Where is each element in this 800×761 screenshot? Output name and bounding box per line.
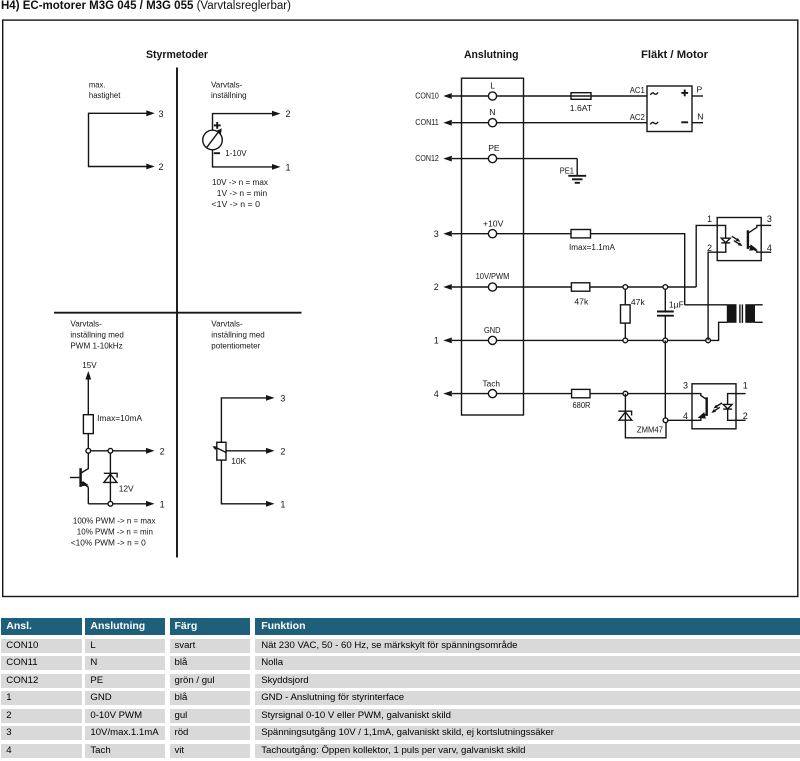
transformer core — [740, 304, 743, 323]
label CON10 — [415, 90, 439, 100]
svg-text:3: 3 — [159, 109, 164, 119]
wire opto2 pin4 — [665, 419, 692, 421]
arrow CON10 — [443, 93, 452, 99]
svg-text:2: 2 — [159, 162, 164, 172]
wire source top to node 2 — [213, 109, 291, 130]
wire transformer top — [685, 304, 727, 306]
svg-text:ZMM47: ZMM47 — [637, 425, 663, 435]
opto U1 LED — [717, 238, 730, 252]
table row CON11 — [1, 656, 81, 670]
svg-text:2: 2 — [280, 446, 285, 456]
node junction C — [108, 501, 113, 506]
terminal box — [462, 78, 524, 415]
terminal Tach — [483, 379, 501, 398]
terminal L — [488, 80, 496, 100]
opto U1 box — [717, 218, 761, 261]
quadrant divider horizontal — [54, 312, 302, 314]
svg-text:3: 3 — [767, 214, 772, 224]
opto U1 emission arrows — [732, 236, 743, 246]
terminal +10V — [483, 218, 504, 237]
arrow row 3 — [443, 231, 452, 237]
svg-text:inställning: inställning — [211, 90, 247, 100]
svg-text:inställning med: inställning med — [211, 330, 265, 340]
svg-text:47k: 47k — [574, 297, 589, 307]
svg-text:100% PWM -> n = max: 100% PWM -> n = max — [73, 516, 156, 526]
svg-text:max.: max. — [89, 79, 106, 89]
svg-text:1: 1 — [286, 162, 291, 172]
svg-text:47k: 47k — [631, 297, 646, 307]
svg-text:15V: 15V — [82, 360, 97, 370]
svg-text:10V -> n = max: 10V -> n = max — [212, 177, 269, 187]
resistor 680R — [572, 389, 591, 410]
arrow CON11 — [443, 120, 452, 126]
label AC1 — [630, 85, 645, 95]
label CON12 — [415, 153, 439, 163]
svg-text:AC1: AC1 — [630, 85, 645, 95]
zener diode ZMM47 — [618, 394, 666, 438]
svg-text:<1V -> n = 0: <1V -> n = 0 — [212, 199, 261, 209]
capacitor 1uF — [657, 290, 684, 341]
opto U1 pin 2 — [707, 243, 717, 341]
svg-text:N: N — [697, 112, 703, 122]
wire N stub — [692, 112, 703, 123]
wire L row — [452, 95, 647, 97]
svg-text:GND: GND — [484, 325, 501, 335]
svg-text:P: P — [697, 84, 703, 94]
wire 15V supply with up arrow — [85, 371, 91, 415]
svg-text:1: 1 — [434, 336, 439, 346]
junction opto2 pin4 — [663, 418, 668, 423]
zener diode 12V — [104, 453, 134, 504]
svg-text:Imax=10mA: Imax=10mA — [97, 413, 142, 423]
voltage source V1 1-10V — [203, 122, 247, 158]
svg-text:PE: PE — [488, 143, 500, 153]
svg-text:680R: 680R — [573, 400, 591, 410]
table row 2 0-10V PWM — [1, 709, 81, 723]
label PE1 — [560, 166, 574, 176]
opto U2 pin 1 — [736, 381, 748, 394]
wire resistor to node — [87, 434, 89, 451]
opto U1 pin 1 — [707, 214, 726, 238]
label 1 — [434, 336, 439, 346]
svg-text:+10V: +10V — [483, 218, 504, 228]
arrow row 1 — [443, 338, 452, 344]
svg-text:2: 2 — [707, 243, 712, 253]
wire 10V/PWM row — [452, 286, 696, 288]
arrow row 4 — [443, 391, 452, 397]
transistor Q1 — [70, 453, 89, 504]
wire node row 2 with arrow — [88, 446, 164, 456]
terminal N — [488, 107, 496, 127]
transformer winding right — [745, 304, 755, 323]
svg-text:10V/PWM: 10V/PWM — [476, 271, 510, 281]
wire PE row — [452, 159, 577, 175]
wire transformer right stubs — [755, 305, 763, 323]
ground PE1 — [568, 176, 586, 183]
wire pin1 riser — [696, 225, 717, 287]
svg-text:hastighet: hastighet — [89, 90, 121, 100]
fuse 1.6AT — [570, 93, 593, 114]
resistor Imax=1.1mA — [569, 230, 615, 252]
opto U2 box — [692, 384, 736, 429]
wire +10V row — [452, 234, 685, 305]
label 2 — [434, 282, 439, 292]
svg-text:1.6AT: 1.6AT — [570, 103, 593, 113]
svg-text:2: 2 — [286, 109, 291, 119]
label 4 — [434, 389, 439, 399]
opto U2 pin 2 — [736, 411, 748, 421]
terminal GND — [484, 325, 501, 344]
svg-text:3: 3 — [280, 393, 285, 403]
svg-text:CON10: CON10 — [415, 90, 439, 100]
svg-text:4: 4 — [767, 243, 772, 253]
wire source bottom to node 1 — [213, 150, 291, 173]
wire pot top to node 3 — [221, 393, 285, 442]
svg-text:PE1: PE1 — [560, 166, 574, 176]
rectifier bridge — [647, 86, 692, 132]
svg-text:1V -> n = min: 1V -> n = min — [217, 188, 268, 198]
wire pot wiper to node 2 — [226, 446, 285, 456]
svg-text:CON11: CON11 — [415, 117, 439, 127]
label Varvtals-installning — [211, 79, 247, 100]
heading Anslutning — [464, 49, 519, 61]
junction 1uF bottom — [663, 338, 668, 343]
svg-text:Fläkt / Motor: Fläkt / Motor — [641, 49, 709, 61]
svg-text:Anslutning: Anslutning — [464, 49, 519, 61]
table row 3 10V — [1, 726, 81, 740]
wire pot bottom to node 1 — [221, 460, 285, 509]
svg-text:10% PWM -> n = min: 10% PWM -> n = min — [77, 527, 153, 537]
terminal 10V/PWM — [476, 271, 510, 291]
svg-text:Tach: Tach — [483, 379, 501, 389]
svg-text:2: 2 — [160, 446, 165, 456]
svg-text:CON12: CON12 — [415, 153, 439, 163]
opto U2 LED — [723, 394, 736, 421]
svg-text:PWM 1-10kHz: PWM 1-10kHz — [70, 340, 122, 350]
wire GND row — [452, 339, 708, 341]
junction zener tach — [623, 391, 628, 396]
svg-text:Styrmetoder: Styrmetoder — [146, 49, 209, 61]
opto U2 phototransistor — [692, 394, 707, 421]
svg-text:10K: 10K — [231, 456, 246, 466]
svg-text:12V: 12V — [119, 483, 134, 493]
svg-text:Varvtals-: Varvtals- — [211, 319, 243, 329]
svg-text:4: 4 — [683, 411, 688, 421]
svg-text:potentiometer: potentiometer — [211, 340, 260, 350]
junction GND end — [706, 338, 711, 343]
wire Tach row — [452, 393, 692, 395]
svg-text:<10% PWM -> n = 0: <10% PWM -> n = 0 — [71, 538, 146, 548]
svg-text:1-10V: 1-10V — [225, 148, 247, 158]
svg-text:N: N — [489, 107, 495, 117]
label Varvtals-installning med potentiometer — [211, 319, 265, 351]
wire bottom row 1 with arrow — [88, 499, 164, 509]
arrow CON12 — [443, 156, 452, 162]
arrow to node 2 — [146, 162, 163, 172]
opto U2 pin 3 — [683, 381, 688, 391]
opto U2 pin 4 — [683, 411, 688, 421]
svg-text:4: 4 — [434, 389, 439, 399]
note voltage mapping — [212, 177, 269, 209]
resistor 47k shunt — [621, 290, 646, 341]
svg-text:1: 1 — [707, 214, 712, 224]
table row 1 GND — [1, 691, 81, 705]
label max. hastighet — [89, 79, 121, 100]
svg-text:1µF: 1µF — [669, 300, 684, 310]
node junction B — [108, 448, 113, 453]
label 15V — [82, 360, 97, 370]
quadrant divider vertical — [176, 68, 178, 558]
label 3 — [434, 229, 439, 239]
svg-text:1: 1 — [280, 499, 285, 509]
svg-text:AC2: AC2 — [630, 112, 645, 122]
junction 47k shunt bottom — [623, 338, 628, 343]
table row CON12 — [1, 674, 81, 688]
opto U1 pin 4 — [761, 243, 772, 253]
arrow row 2 — [443, 284, 452, 290]
svg-text:L: L — [490, 80, 495, 90]
svg-text:1: 1 — [160, 499, 165, 509]
resistor 47k series — [571, 283, 589, 307]
wire max-hastighet bracket — [89, 113, 148, 166]
potentiometer 10K — [212, 442, 246, 466]
label Varvtals-installning med PWM 1-10kHz — [70, 319, 124, 351]
wire P stub — [692, 84, 703, 96]
svg-text:3: 3 — [434, 229, 439, 239]
junction 47k shunt top — [623, 285, 628, 290]
label AC2 — [630, 112, 645, 122]
table row CON10 — [1, 639, 81, 653]
arrow to node 3 — [146, 109, 163, 119]
label CON11 — [415, 117, 439, 127]
opto U1 phototransistor — [748, 225, 761, 252]
note PWM mapping — [71, 516, 156, 548]
opto U2 emission arrows — [711, 403, 722, 413]
transformer winding left — [727, 304, 737, 323]
wire 1uF junction down — [664, 340, 666, 420]
svg-text:1: 1 — [743, 381, 748, 391]
opto U1 pin 3 — [761, 214, 772, 226]
svg-text:inställning med: inställning med — [70, 330, 124, 340]
svg-text:Varvtals-: Varvtals- — [70, 319, 102, 329]
junction 1uF top — [663, 285, 668, 290]
resistor R Imax=10mA — [83, 413, 142, 434]
svg-text:3: 3 — [683, 381, 688, 391]
heading Flakt/Motor — [641, 49, 709, 61]
svg-text:Varvtals-: Varvtals- — [211, 79, 243, 89]
wire transformer bottom return — [711, 322, 727, 340]
wire N row — [452, 122, 647, 124]
svg-text:Imax=1.1mA: Imax=1.1mA — [569, 242, 615, 252]
table header row — [1, 618, 81, 636]
heading Styrmetoder — [146, 49, 209, 61]
svg-text:2: 2 — [434, 282, 439, 292]
table row 4 Tach — [1, 744, 81, 758]
title — [1, 0, 291, 12]
outer frame — [3, 20, 798, 596]
terminal PE — [488, 143, 500, 163]
node junction A — [86, 448, 91, 453]
